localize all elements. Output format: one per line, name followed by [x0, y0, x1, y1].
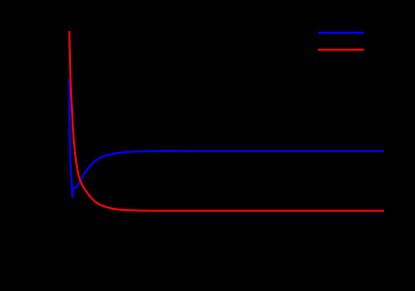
red curve: [69, 31, 384, 211]
legend red line sample: [318, 49, 364, 51]
blue curve: [69, 79, 384, 198]
legend blue line sample: [318, 32, 364, 34]
